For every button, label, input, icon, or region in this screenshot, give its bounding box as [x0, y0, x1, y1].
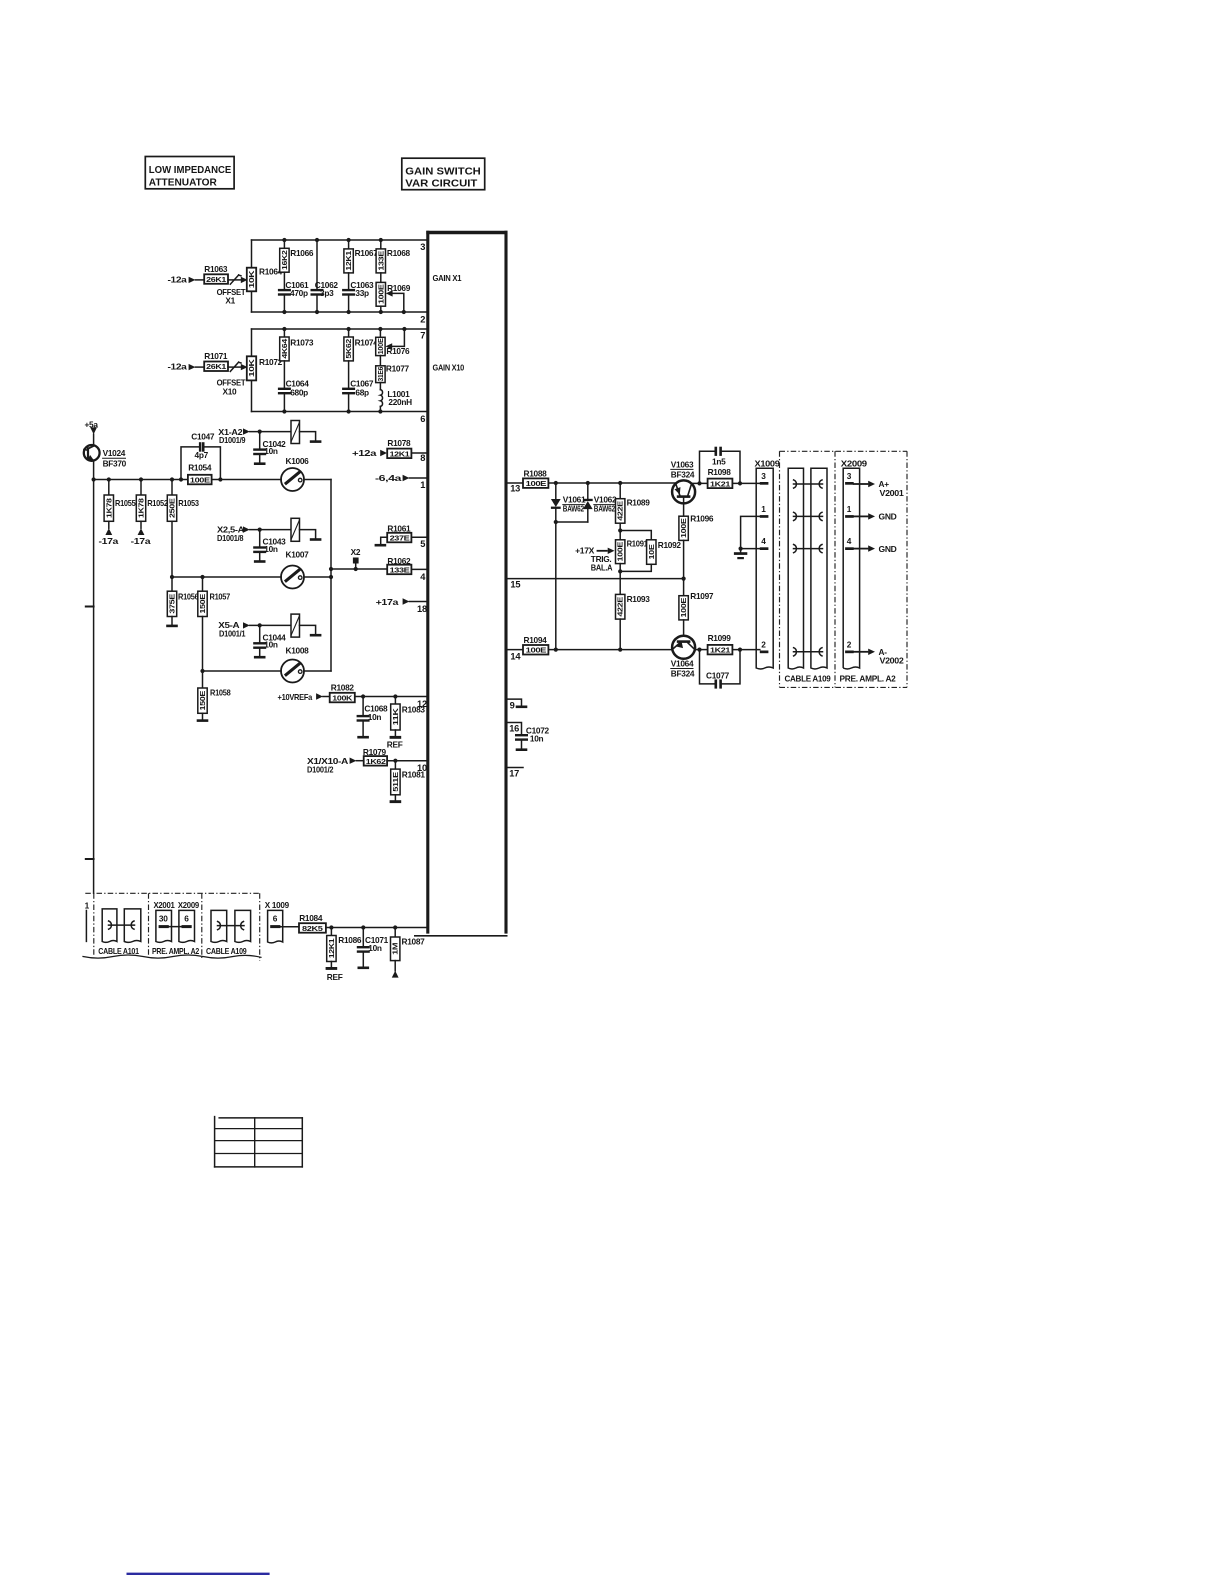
resistor R1063 26K1 preset	[204, 264, 245, 306]
resistor R1079 1K62	[363, 747, 426, 766]
node rail K1006 input	[94, 479, 188, 481]
svg-text:6: 6	[273, 913, 278, 923]
svg-text:GND: GND	[879, 544, 897, 554]
svg-text:9: 9	[510, 701, 515, 711]
svg-text:31E6: 31E6	[376, 367, 385, 382]
svg-text:-12a: -12a	[168, 362, 188, 372]
resistor R1097 100E	[679, 579, 714, 636]
svg-text:10n: 10n	[368, 943, 382, 953]
resistor R1081 511E	[390, 761, 426, 803]
node switch output bus	[330, 480, 332, 672]
svg-text:250E: 250E	[168, 498, 177, 518]
resistor R1077 31E6	[376, 363, 410, 389]
svg-text:X 1009: X 1009	[265, 900, 290, 910]
node pin 14 rail	[508, 649, 523, 651]
svg-text:16: 16	[509, 724, 519, 734]
wire X2 node to R1062	[331, 568, 387, 570]
svg-text:R1056: R1056	[178, 592, 199, 602]
capacitor C1047 4p7 bypass	[181, 432, 220, 480]
transistor V1064 BF324	[671, 636, 695, 679]
svg-text:12K1: 12K1	[344, 251, 353, 271]
net -12a (offset x10)	[168, 362, 205, 372]
svg-text:17: 17	[509, 769, 519, 779]
svg-text:10n: 10n	[530, 733, 544, 743]
net +10VREFa	[278, 692, 330, 702]
svg-text:100K: 100K	[332, 694, 353, 703]
svg-text:R1092: R1092	[658, 540, 682, 550]
capacitor C1061 470p	[278, 280, 309, 312]
svg-text:GAIN X10: GAIN X10	[433, 363, 465, 373]
resistor R1067 12K1	[344, 240, 378, 290]
capacitor C1064 680p	[278, 379, 309, 412]
svg-text:100E: 100E	[376, 284, 385, 304]
capacitor C1068 10n	[357, 697, 388, 739]
svg-text:1K62: 1K62	[366, 757, 386, 766]
pin 2 X1009	[760, 639, 769, 653]
svg-text:R1077: R1077	[386, 363, 410, 373]
svg-text:D1001/1: D1001/1	[219, 629, 246, 639]
svg-text:10E: 10E	[647, 544, 656, 560]
svg-text:1: 1	[85, 901, 90, 911]
wire diode pair tie	[556, 522, 588, 650]
footer rule	[127, 1573, 270, 1575]
capacitor C1062 3p3	[311, 240, 339, 312]
svg-text:V1063: V1063	[671, 459, 694, 469]
ground bracket pins 1/4	[734, 516, 760, 559]
svg-text:R1053: R1053	[178, 498, 199, 508]
svg-text:C1077: C1077	[706, 670, 730, 680]
svg-text:R1084: R1084	[299, 913, 323, 923]
svg-text:100E: 100E	[679, 518, 688, 538]
wire R1063 wiper to R1064	[228, 277, 248, 283]
svg-text:2: 2	[420, 315, 425, 325]
svg-text:4: 4	[847, 536, 852, 546]
net X1-A2 D1001/9	[218, 427, 291, 445]
resistor R1082 100K	[330, 683, 427, 703]
resistor R1086 12K1	[326, 928, 362, 983]
pin 4 X1009	[760, 536, 769, 550]
svg-text:V1064: V1064	[671, 658, 694, 668]
resistor R1089 422E	[616, 483, 651, 540]
cable contacts A109 row1	[794, 512, 823, 520]
resistor R1066 16K2	[280, 240, 314, 290]
node pin 13 rail	[508, 482, 523, 484]
svg-text:BF324: BF324	[671, 469, 695, 479]
svg-text:REF: REF	[387, 740, 403, 750]
svg-text:15: 15	[510, 580, 520, 590]
svg-text:V2002: V2002	[880, 656, 905, 666]
resistor R1055 1K78	[104, 480, 136, 529]
svg-text:12K1: 12K1	[390, 449, 410, 458]
transistor V1063 BF324	[671, 459, 695, 516]
gain switch block U1001 outline	[414, 231, 508, 936]
capacitor C1044 10n	[253, 625, 286, 658]
wire x10 left riser	[251, 329, 253, 412]
svg-text:R1099: R1099	[708, 633, 732, 643]
svg-text:+10VREFa: +10VREFa	[278, 692, 313, 702]
svg-text:1n5: 1n5	[712, 456, 726, 466]
net +17X trig bal wiper	[575, 545, 614, 572]
svg-text:7: 7	[420, 331, 425, 341]
net -17a (R1052)	[131, 528, 151, 546]
transistor V1024 BF370	[84, 445, 127, 469]
svg-text:8: 8	[420, 453, 425, 463]
svg-text:C1047: C1047	[191, 432, 215, 442]
net +17a	[376, 597, 427, 607]
preamp block PRE.AMPL.A2	[840, 458, 897, 683]
resistor R1053 250E	[167, 480, 199, 578]
svg-text:D1001/8: D1001/8	[217, 533, 244, 543]
revision table	[215, 1117, 303, 1167]
resistor R1056 375E	[166, 577, 199, 627]
wire R1069 wiper	[386, 290, 404, 312]
svg-text:LOW IMPEDANCE: LOW IMPEDANCE	[149, 164, 232, 176]
net -12a (offset x1)	[168, 275, 205, 285]
svg-text:100E: 100E	[190, 476, 210, 485]
pin 1 cable A101	[85, 901, 90, 942]
wire V1064 emitter to R1099	[695, 649, 708, 651]
wire V1024 emitter long drop to cable A101	[86, 461, 94, 894]
svg-text:R1068: R1068	[387, 248, 411, 258]
svg-text:16K2: 16K2	[280, 250, 289, 270]
svg-text:30: 30	[159, 913, 168, 923]
svg-text:BF370: BF370	[103, 459, 127, 469]
net -6,4a	[375, 473, 426, 483]
svg-text:R1091: R1091	[627, 538, 649, 548]
svg-text:+12a: +12a	[352, 448, 377, 458]
svg-text:133E: 133E	[376, 251, 385, 271]
node gain x10 top rail (pin 7)	[252, 328, 427, 330]
svg-text:14: 14	[510, 652, 521, 662]
svg-text:PRE. AMPL. A2: PRE. AMPL. A2	[152, 946, 200, 956]
wire R1054 output to K1006	[212, 479, 282, 481]
svg-text:1K78: 1K78	[104, 498, 113, 518]
pin 1 X1009	[760, 504, 769, 518]
svg-text:6: 6	[420, 414, 425, 424]
svg-text:R1098: R1098	[708, 467, 732, 477]
junction dots x10 rails	[282, 327, 406, 414]
resistor R1093 422E	[616, 594, 651, 650]
resistor R1057 150E	[198, 577, 231, 671]
svg-text:X10: X10	[223, 387, 238, 397]
connector X2001 (30)	[154, 900, 176, 942]
resistor R1052 1K78	[136, 480, 168, 529]
junction dots mid pins	[361, 694, 398, 762]
resistor R1071 26K1 preset	[204, 351, 245, 396]
pin 3 X2009 / net A+ V2001	[845, 471, 904, 498]
svg-text:GAIN SWITCH: GAIN SWITCH	[405, 166, 481, 178]
net +5a	[85, 419, 99, 446]
resistor R1068 133E	[376, 240, 410, 282]
svg-text:422E: 422E	[616, 597, 625, 617]
resistor R1072 10K	[247, 356, 283, 380]
svg-text:33p: 33p	[355, 288, 369, 298]
svg-text:R1088: R1088	[524, 468, 548, 478]
svg-text:133E: 133E	[390, 565, 410, 574]
svg-text:-17a: -17a	[99, 536, 119, 546]
resistor R1099 1K21	[708, 633, 760, 654]
net X5-A D1001/1	[218, 620, 291, 639]
junction dots left rails	[92, 430, 334, 674]
svg-text:R1052: R1052	[147, 498, 168, 508]
svg-text:-17a: -17a	[131, 536, 151, 546]
svg-text:10n: 10n	[368, 712, 382, 722]
svg-text:V2001: V2001	[880, 488, 905, 498]
capacitor C1077 bypass	[700, 650, 741, 689]
capacitor C1042 10n	[253, 432, 286, 465]
svg-text:10K: 10K	[247, 358, 256, 377]
svg-text:X2009: X2009	[841, 458, 868, 468]
svg-text:3p3: 3p3	[320, 288, 334, 298]
svg-text:V1024: V1024	[103, 448, 126, 458]
svg-text:K1007: K1007	[286, 550, 310, 560]
wire R1071 wiper to R1072	[228, 364, 248, 370]
svg-text:R1082: R1082	[331, 683, 355, 693]
svg-text:12K1: 12K1	[327, 938, 336, 958]
svg-text:X2: X2	[351, 547, 361, 557]
svg-text:4K64: 4K64	[280, 338, 289, 359]
resistor R1083 11K	[387, 697, 426, 750]
svg-text:680p: 680p	[290, 387, 308, 397]
wire R1076 wiper	[385, 329, 404, 350]
node gain x10 bottom rail (pin 6)	[252, 411, 427, 413]
svg-text:CABLE A109: CABLE A109	[206, 946, 247, 956]
cable contacts A109 row4	[794, 545, 823, 553]
cable block bottom outline	[83, 893, 261, 961]
svg-text:422E: 422E	[616, 501, 625, 521]
connector X1009 (bottom)	[265, 900, 299, 943]
svg-text:1K21: 1K21	[710, 646, 730, 655]
resistor R1087 1M	[391, 928, 426, 978]
cable contacts A109 row3	[794, 480, 823, 488]
svg-text:X1: X1	[225, 296, 235, 306]
pin 17 stub	[508, 767, 523, 769]
svg-text:100E: 100E	[526, 479, 547, 488]
svg-text:CABLE A101: CABLE A101	[98, 946, 139, 956]
svg-text:150E: 150E	[198, 690, 207, 710]
wire V1063 emitter to R1098	[692, 482, 708, 484]
svg-text:10n: 10n	[264, 640, 278, 650]
svg-text:-12a: -12a	[168, 275, 188, 285]
switch contact K1008	[281, 660, 331, 683]
svg-text:18: 18	[417, 604, 427, 614]
junction dots right section	[554, 481, 742, 652]
svg-text:X2001: X2001	[154, 900, 176, 910]
svg-text:R1063: R1063	[204, 264, 228, 274]
node gain x1 top rail (pin 3)	[252, 239, 427, 241]
resistor R1094 100E	[523, 635, 548, 655]
svg-text:R1094: R1094	[524, 635, 548, 645]
cable block CABLE A109	[780, 451, 908, 687]
node gain x1 bottom rail (pin 2)	[252, 311, 427, 313]
node pin 15 rail	[508, 578, 684, 580]
svg-text:R1057: R1057	[210, 592, 231, 602]
svg-text:68p: 68p	[355, 387, 369, 397]
svg-text:2: 2	[761, 639, 766, 649]
svg-text:5: 5	[420, 539, 425, 549]
svg-text:1K21: 1K21	[710, 479, 730, 488]
resistor R1054 100E	[188, 462, 212, 484]
svg-text:10n: 10n	[264, 544, 278, 554]
resistor R1096 100E	[679, 513, 714, 578]
svg-text:82K5: 82K5	[302, 924, 323, 933]
svg-text:R1066: R1066	[290, 248, 314, 258]
svg-text:GND: GND	[879, 512, 897, 522]
svg-text:3: 3	[761, 471, 766, 481]
resistor R1092 10E	[620, 531, 681, 572]
test point X2	[351, 547, 361, 571]
resistor R1061 237E	[375, 524, 427, 547]
resistor R1062 133E	[387, 556, 426, 574]
cable contacts A109 row2	[794, 648, 823, 656]
svg-text:D1001/2: D1001/2	[307, 764, 334, 774]
svg-text:PRE. AMPL. A2: PRE. AMPL. A2	[840, 674, 897, 684]
svg-text:470p: 470p	[290, 288, 308, 298]
svg-text:R1054: R1054	[188, 462, 212, 472]
diode V1062 BAW62	[583, 483, 617, 522]
relay coil K1007	[286, 518, 322, 559]
svg-text:X1009: X1009	[755, 458, 781, 468]
svg-text:K1006: K1006	[286, 456, 310, 466]
node rail K1008 input	[203, 670, 282, 672]
title box LOW IMPEDANCE ATTENUATOR	[145, 157, 234, 189]
capacitor C1067 68p	[342, 379, 374, 412]
svg-text:R1081: R1081	[402, 770, 426, 780]
svg-text:-6,4a: -6,4a	[375, 473, 402, 483]
svg-text:CABLE A109: CABLE A109	[785, 674, 832, 684]
resistor R1074 5K62	[344, 329, 378, 389]
svg-text:1: 1	[847, 504, 852, 514]
inductor L1001 220nH	[380, 389, 412, 412]
wire pin14 rail to V1064	[548, 649, 672, 651]
node rail K1007 input	[172, 576, 281, 578]
diode V1061 BAW62	[551, 483, 586, 522]
junction dots bottom rail	[329, 925, 397, 929]
svg-text:10K: 10K	[247, 269, 256, 288]
resistor R1069 100E preset	[376, 282, 411, 312]
pin 16 capacitor C1072 10n	[508, 723, 550, 752]
wire x1 left riser	[251, 240, 253, 312]
svg-text:R1087: R1087	[402, 937, 426, 947]
resistor R1084 82K5	[299, 913, 426, 933]
resistor R1073 4K64	[280, 329, 314, 389]
svg-text:ATTENUATOR: ATTENUATOR	[149, 176, 217, 188]
connector X1009 (right)	[755, 458, 781, 669]
switch contact K1007	[281, 566, 331, 589]
svg-text:K1008: K1008	[286, 645, 310, 655]
svg-text:R1083: R1083	[402, 705, 426, 715]
svg-text:4p7: 4p7	[195, 450, 209, 460]
svg-text:R1086: R1086	[338, 935, 362, 945]
svg-text:3: 3	[420, 242, 425, 252]
svg-text:R1097: R1097	[690, 591, 714, 601]
connector housing CABLE A109 (bottom)	[206, 910, 251, 956]
svg-text:BAL.A: BAL.A	[591, 563, 613, 573]
capacitor C1043 10n	[253, 530, 286, 563]
svg-text:1K78: 1K78	[137, 498, 146, 518]
title box GAIN SWITCH VAR CIRCUIT	[402, 158, 485, 190]
net X2,5-A D1001/8	[217, 524, 291, 543]
svg-text:511E: 511E	[391, 772, 400, 792]
svg-text:5K62: 5K62	[344, 339, 353, 359]
junction dots x1 rails	[282, 238, 406, 314]
resistor R1064 10K	[247, 267, 283, 292]
svg-text:100E: 100E	[376, 338, 385, 354]
wire pin13 rail to V1063	[548, 482, 675, 484]
svg-text:D1001/9: D1001/9	[219, 435, 246, 445]
svg-text:237E: 237E	[390, 534, 410, 543]
svg-text:100E: 100E	[526, 646, 547, 655]
pin 2 X2009 / net A- V2002	[845, 639, 904, 665]
svg-text:1: 1	[420, 480, 425, 490]
svg-text:BF324: BF324	[671, 668, 695, 678]
svg-text:BAW62: BAW62	[594, 504, 616, 514]
connector X2009 (6)	[152, 900, 200, 956]
svg-text:R1058: R1058	[210, 688, 231, 698]
svg-text:R1096: R1096	[690, 513, 714, 523]
pin 1 X2009 / net GND	[845, 504, 897, 522]
svg-text:1M: 1M	[391, 943, 400, 955]
svg-text:150E: 150E	[198, 594, 207, 614]
svg-text:220nH: 220nH	[388, 397, 412, 407]
relay coil K1006	[286, 421, 322, 466]
pin 9 ground stub	[508, 699, 528, 708]
svg-text:100E: 100E	[616, 541, 625, 561]
capacitor C1063 33p	[342, 280, 374, 312]
resistor R1078 12K1	[387, 438, 426, 458]
svg-text:BAW62: BAW62	[563, 504, 585, 514]
switch contact K1006	[281, 468, 331, 491]
svg-text:3: 3	[847, 471, 852, 481]
resistor R1088 100E	[523, 468, 548, 488]
svg-text:26K1: 26K1	[206, 362, 226, 371]
svg-text:R1093: R1093	[627, 594, 651, 604]
svg-text:R1071: R1071	[204, 351, 228, 361]
resistor R1091 100E preset	[616, 538, 649, 594]
svg-text:GAIN X1: GAIN X1	[433, 273, 462, 283]
svg-text:2: 2	[847, 639, 852, 649]
capacitor C1071 10n	[357, 928, 389, 970]
svg-text:13: 13	[510, 483, 520, 493]
svg-text:R1067: R1067	[355, 248, 379, 258]
svg-text:100E: 100E	[679, 598, 688, 618]
svg-text:11K: 11K	[391, 707, 400, 725]
svg-text:R1055: R1055	[115, 498, 136, 508]
svg-text:4: 4	[761, 536, 766, 546]
capacitor 1n5 bypass	[700, 447, 741, 484]
svg-text:1: 1	[761, 504, 766, 514]
svg-text:R1074: R1074	[355, 338, 379, 348]
svg-text:+17a: +17a	[376, 597, 399, 607]
svg-text:375E: 375E	[168, 594, 177, 614]
svg-text:X2009: X2009	[178, 900, 200, 910]
svg-text:R1073: R1073	[290, 338, 314, 348]
resistor R1058 150E	[197, 671, 231, 722]
svg-text:R1089: R1089	[627, 497, 651, 507]
net X1/X10-A D1001/2	[307, 756, 364, 775]
pin 3 X1009	[760, 471, 769, 485]
svg-text:REF: REF	[327, 972, 343, 982]
connector housing CABLE A101	[98, 909, 141, 956]
net +12a	[352, 448, 387, 458]
svg-text:26K1: 26K1	[206, 275, 226, 284]
relay coil K1008	[286, 614, 322, 655]
svg-text:R1078: R1078	[387, 438, 411, 448]
pin 4 X2009 / net GND	[845, 536, 897, 554]
resistor R1098 1K21	[708, 467, 760, 489]
svg-text:10n: 10n	[264, 446, 278, 456]
net -17a (R1055)	[99, 528, 119, 546]
